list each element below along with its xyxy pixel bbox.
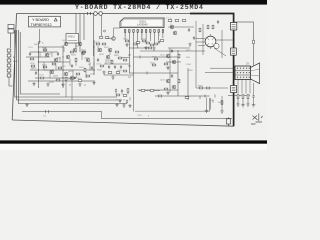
- wire: bus y96 right: [155, 95, 210, 97]
- resistor R656: [212, 25, 214, 29]
- capacitor C644: [126, 100, 128, 104]
- ground g16: [144, 46, 147, 50]
- T601 pin dots: [205, 39, 216, 45]
- resistor R654: [199, 28, 201, 32]
- wire: vertical drop B: [79, 14, 81, 53]
- capacitor C671: [252, 95, 254, 99]
- bottom black letterbox bar: [0, 140, 267, 143]
- wire: return bus 4: [20, 32, 60, 94]
- wire: inner return line upper right: [135, 98, 210, 111]
- extra interconnect wires in left cluster: [40, 46, 110, 78]
- resistor R663: [160, 40, 164, 42]
- wire: connector pin drops: [238, 80, 250, 94]
- resistor R667: [199, 87, 203, 89]
- diode D611: [74, 76, 76, 79]
- fuse F801 on top line: [94, 12, 98, 16]
- wire: h y27: [168, 26, 194, 28]
- resistor R634: [86, 75, 90, 77]
- resistor R649: [185, 97, 189, 99]
- transistor Q611: [166, 54, 170, 58]
- wire: inner return line: [22, 112, 232, 119]
- connector P801 (left entry): [8, 25, 14, 34]
- capacitor C619: [114, 65, 116, 69]
- wire: v x222 lower: [221, 96, 223, 110]
- wire: drop from fuse F802: [101, 15, 103, 36]
- resistor R611: [125, 40, 129, 42]
- capacitor C643: [119, 99, 121, 103]
- transistor Q601: [112, 37, 116, 41]
- transistor Q606: [66, 55, 70, 59]
- resistor R619: [75, 58, 77, 62]
- wire: h y73: [129, 72, 178, 74]
- resistor R615: [30, 58, 34, 60]
- resistor R637: [158, 95, 162, 97]
- transformer T601 (vertical linearity): [205, 36, 216, 47]
- wire: v-rail x170: [169, 48, 171, 92]
- resistor R660: [146, 42, 150, 44]
- paper background: [0, 0, 267, 150]
- fusible resistor R661 on bold bus: [230, 23, 236, 31]
- transistor Q605: [54, 58, 58, 62]
- DY plug ribs: [251, 69, 260, 76]
- svg-text:6.8k: 6.8k: [186, 57, 190, 59]
- ground g9b: [241, 103, 244, 107]
- resistor R666 on right lead: [253, 40, 255, 44]
- resistor R608: [123, 59, 127, 61]
- transistor Q614: [172, 85, 176, 89]
- wire: feeds from left: [205, 68, 234, 73]
- resistor R618: [70, 51, 74, 53]
- label box: Y BOARD TNP8EY012: [29, 16, 61, 27]
- resistor R638: [154, 58, 158, 60]
- capacitor C631: [188, 28, 190, 32]
- resistor R607: [116, 72, 120, 74]
- resistor R616: [43, 49, 47, 51]
- resistor R626: [76, 73, 80, 75]
- ground g5c: [111, 76, 114, 80]
- rail lead ticks: [128, 55, 131, 77]
- capacitor C616: [91, 66, 93, 70]
- resistor R646: [127, 89, 129, 93]
- transistor Q607: [86, 58, 90, 62]
- resistor R653: [182, 20, 186, 22]
- transistor Q608: [50, 70, 54, 74]
- resistor R673: [247, 95, 249, 99]
- resistor ladder chain (left): [7, 49, 11, 77]
- wire: cluster links: [116, 92, 130, 100]
- svg-text:5: 5: [142, 35, 143, 37]
- hand mark bottom right: [251, 114, 263, 125]
- IC601 pins: [124, 30, 163, 33]
- capacitor C621: [171, 49, 173, 53]
- wire: h-bus y52: [30, 51, 58, 53]
- wire: T601 stubs left: [196, 39, 205, 46]
- transistor Q617: [108, 48, 112, 52]
- ground g7: [166, 91, 169, 95]
- fusible resistor R662 on bold bus: [231, 86, 237, 93]
- resistor R617: [52, 63, 56, 65]
- ground g15: [220, 110, 223, 114]
- capacitor C641: [115, 89, 117, 93]
- capacitor C611: [29, 52, 31, 56]
- wire: drop to bus: [66, 80, 72, 100]
- wire: Q601 leads: [106, 28, 120, 39]
- ground g12: [122, 104, 125, 108]
- resistor R652: [175, 20, 179, 22]
- wire: y90 line left cluster: [139, 90, 160, 92]
- ground g13: [205, 109, 208, 113]
- wire: return bus 2: [17, 30, 122, 100]
- transistor Q603: [78, 42, 82, 46]
- svg-text:3: 3: [133, 35, 134, 37]
- svg-text:DY: DY: [246, 63, 250, 66]
- ground g9: [236, 103, 239, 107]
- resistor R628: [100, 65, 104, 67]
- transistor Q618: [73, 48, 77, 52]
- dashed outline right of IC: [164, 18, 171, 30]
- resistor R630: [65, 77, 67, 81]
- fuse F802 on top line: [99, 12, 103, 16]
- resistor R606: [108, 72, 112, 74]
- wire: h y48: [129, 47, 152, 49]
- ground g14: [152, 47, 155, 51]
- T601 radial ticks: [207, 34, 214, 49]
- capacitor C633: [217, 20, 219, 24]
- resistor R631: [78, 80, 82, 82]
- wire: connector stubs from bold bus: [234, 68, 235, 77]
- wire: v-rail x63: [62, 45, 64, 88]
- resistor R636: [118, 57, 122, 59]
- ground g5b: [102, 71, 105, 75]
- wire: ladder interconnects: [9, 52, 13, 86]
- connector CN601 (deflection yoke): [235, 66, 251, 80]
- transistor Q615: [106, 55, 110, 59]
- transistor Q602: [64, 42, 68, 46]
- ground g6: [166, 66, 169, 70]
- resistor R609: [123, 70, 127, 72]
- ground under inner line: [25, 103, 28, 107]
- ground g17: [125, 43, 128, 47]
- resistor R627: [84, 68, 86, 72]
- ground g5: [92, 81, 95, 85]
- jumper ticks on y97 bus: [200, 96, 222, 104]
- resistor R651: [168, 20, 172, 22]
- resistor R662b: [154, 43, 158, 45]
- svg-text:TNP8EY012: TNP8EY012: [31, 23, 52, 27]
- ground g11: [115, 103, 118, 107]
- transistor Q622: [173, 31, 177, 35]
- capacitor C632: [193, 36, 195, 40]
- wire: link from IC area: [140, 50, 205, 52]
- svg-text:Y-BOARD TX-28MD4 / TX-25MD4: Y-BOARD TX-28MD4 / TX-25MD4: [75, 4, 203, 11]
- wire: h-bus y78: [35, 77, 75, 79]
- resistor R629: [111, 60, 113, 64]
- ground g8: [188, 43, 191, 47]
- resistor R641: [164, 63, 168, 65]
- wire: return bus 1: [15, 30, 117, 97]
- resistor R647: [141, 90, 145, 92]
- ground g2: [46, 83, 49, 87]
- wire: h-bus y81: [28, 80, 95, 82]
- ground g12b: [128, 104, 131, 108]
- capacitor C614: [97, 58, 99, 62]
- wire: v x188: [187, 68, 189, 100]
- white strip below bar: [0, 144, 267, 150]
- resistor R655: [207, 25, 209, 29]
- resistor R610: [150, 44, 154, 46]
- wire: stub to rails: [104, 58, 134, 76]
- resistor R632: [40, 77, 44, 79]
- DY plug (wedge): [251, 63, 260, 84]
- transistor Q612: [172, 60, 176, 64]
- transistor Q609: [64, 72, 68, 76]
- svg-text:1: 1: [125, 35, 126, 37]
- transistor Q604: [45, 53, 49, 57]
- resistor R633: [56, 79, 60, 81]
- jumper ticks y96: [205, 95, 215, 98]
- wire: frame bottom line: [12, 120, 233, 126]
- wire: diag lead: [214, 48, 226, 56]
- jumper ticks on top line: [88, 12, 91, 15]
- resistor R644: [164, 88, 168, 90]
- IC601 vertical output: [120, 18, 164, 28]
- resistor R640: [152, 64, 156, 66]
- resistor R642: [178, 54, 180, 58]
- wire: h y48: [168, 47, 190, 49]
- resistor R625: [58, 67, 62, 69]
- resistor R639: [148, 47, 152, 49]
- wire: v x203: [202, 24, 204, 55]
- svg-text:1k: 1k: [42, 43, 44, 45]
- resistor R645: [178, 79, 180, 83]
- transistor Q613: [166, 79, 170, 83]
- wire: drops to ground: [238, 83, 254, 104]
- wire: frame left line: [12, 14, 16, 121]
- jumper tick: [140, 56, 147, 75]
- resistor R604: [99, 37, 103, 39]
- wire: h-bus y47: [38, 46, 64, 48]
- svg-text:1k: 1k: [88, 64, 90, 66]
- capacitor grid C618: [108, 65, 110, 69]
- ground g3: [61, 83, 64, 87]
- ground g1: [32, 82, 35, 86]
- svg-text:9: 9: [159, 35, 160, 37]
- ground g4: [78, 83, 81, 87]
- wire: right frame extension to DY lead: [234, 22, 254, 69]
- wire: vertical drop D: [93, 14, 95, 57]
- wire: vertical drop C: [83, 14, 85, 41]
- wire: v x178: [177, 50, 179, 96]
- transformer T601 secondary circle: [214, 43, 219, 48]
- wire: T601 to bold bus: [216, 39, 234, 41]
- resistor R624: [43, 66, 47, 68]
- wire: frame top line: [17, 13, 235, 15]
- wire: v x222: [221, 30, 223, 58]
- svg-text:Y BOARD: Y BOARD: [32, 18, 49, 22]
- resistor R621: [96, 43, 100, 45]
- ground g10b: [252, 103, 255, 107]
- resistor R671: [237, 95, 239, 99]
- junction ring on Q601 base wire: [104, 30, 106, 32]
- resistor R612: [133, 43, 137, 45]
- top black letterbox bar: [0, 0, 267, 5]
- ground bus: bold right frame: [190, 14, 234, 127]
- resistor R622: [102, 43, 106, 45]
- resistor R623: [31, 65, 35, 67]
- capacitor C620: [120, 65, 122, 69]
- junction dots: [38, 47, 95, 86]
- resistor R668: [206, 87, 210, 89]
- wire: h-bus y57: [26, 56, 50, 58]
- wire: h y62: [166, 61, 181, 63]
- fusible resistor R663b on bold bus: [231, 48, 237, 55]
- svg-text:LA78040: LA78040: [137, 23, 148, 27]
- resistor R613: [142, 40, 146, 42]
- wire: v-rail x38: [38, 42, 40, 88]
- resistor R635: [115, 51, 119, 53]
- resistor R614: [136, 42, 140, 44]
- resistor R620: [82, 51, 86, 53]
- transistor Q619: [81, 51, 85, 55]
- relay box RL601: [66, 34, 79, 44]
- wire: stub below label box: [38, 29, 41, 44]
- component on bottom frame right: [228, 118, 230, 127]
- capacitor C615: [35, 71, 37, 75]
- jumper tick inner line: [46, 110, 49, 113]
- wire: v x196: [196, 21, 228, 88]
- resistor R664: [116, 94, 120, 96]
- capacitor C622: [171, 74, 173, 78]
- transistor Q610: [98, 48, 102, 52]
- svg-text:VR601: VR601: [68, 36, 76, 39]
- resistor R672: [242, 95, 244, 99]
- wire: IC pin drops: [125, 32, 163, 111]
- wire: h-bus y70: [30, 69, 95, 71]
- transistor Q616: [70, 76, 74, 80]
- wire: v-rail x94: [93, 40, 95, 75]
- capacitor C612: [57, 52, 59, 56]
- wire: h y57: [134, 56, 179, 58]
- resistor R605: [105, 37, 109, 39]
- wire: h-bus y62: [38, 61, 70, 63]
- capacitor C642: [121, 89, 123, 93]
- resistor R669: [221, 101, 223, 105]
- wire: vertical drop A: [75, 14, 77, 49]
- resistor R665: [123, 95, 127, 97]
- resistor R648: [150, 90, 154, 92]
- capacitor C613: [71, 64, 73, 68]
- wire: from P801 down: [10, 33, 12, 48]
- wire: v drops x206.5,x210.5: [207, 98, 211, 110]
- svg-text:GND: GND: [13, 61, 18, 63]
- wire: h y90: [138, 89, 179, 91]
- wire: h line y95.5: [228, 95, 250, 97]
- svg-text:7: 7: [150, 35, 151, 37]
- capacitor C610: [158, 40, 160, 44]
- wire: return bus 3: [18, 30, 127, 104]
- ground g10: [246, 103, 249, 107]
- transistor Q621: [170, 25, 174, 29]
